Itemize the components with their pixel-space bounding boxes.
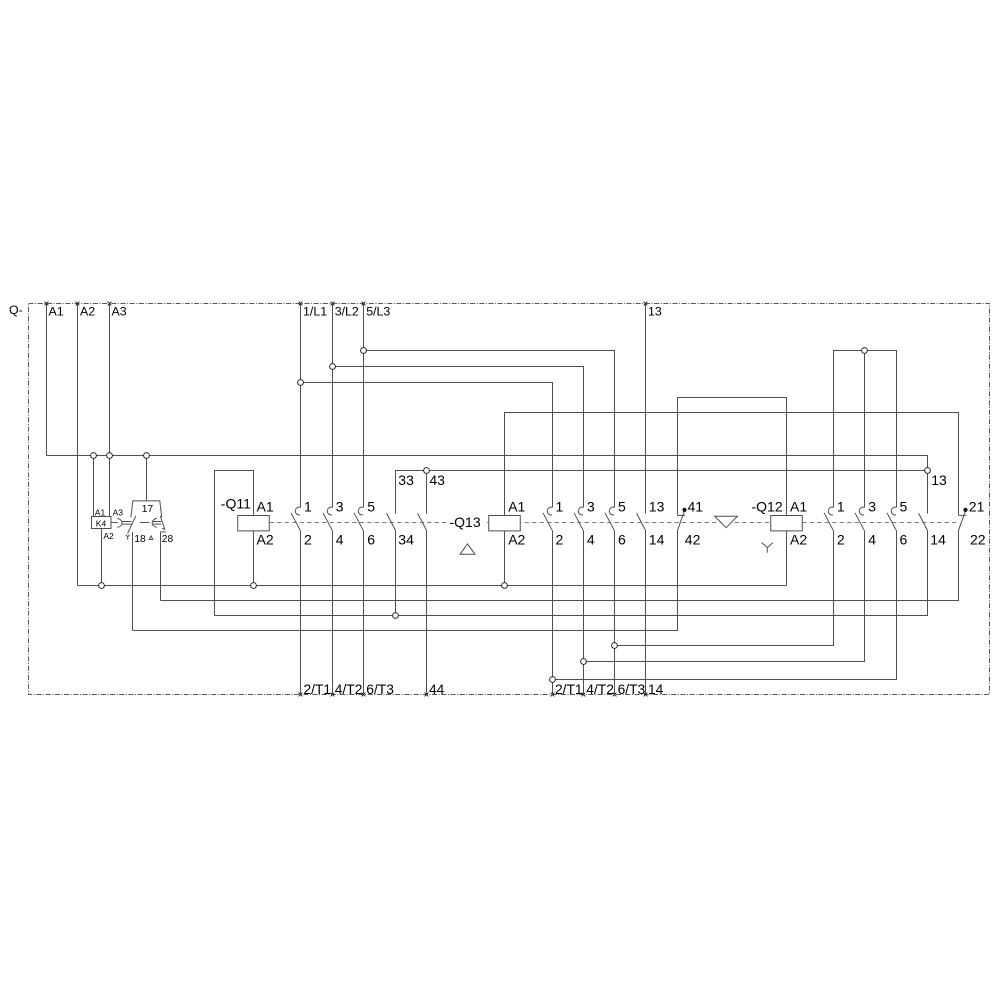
svg-text:-Q12: -Q12 <box>752 499 783 515</box>
contact Q11 5/6 <box>354 507 364 530</box>
contact Q13 41/42 NC <box>678 508 687 531</box>
svg-text:43: 43 <box>429 472 445 488</box>
svg-text:A2: A2 <box>80 304 95 318</box>
svg-text:5: 5 <box>618 499 626 515</box>
wire L3 tap to Q13 pole 5 <box>364 351 615 508</box>
wire terminal A1 vertical <box>46 304 48 456</box>
svg-text:5/L3: 5/L3 <box>366 304 390 318</box>
wire L1 tap to Q13 pole 1 <box>301 383 553 508</box>
svg-text:14: 14 <box>649 531 665 547</box>
wire Q11 contact 34 drop <box>395 530 397 615</box>
svg-text:4: 4 <box>868 531 876 547</box>
wire Q13 coil A1 to Q12 contact 21 <box>505 413 959 516</box>
terminal 1/L1 marker <box>299 302 303 306</box>
wire Q13 contact 14 to terminal 14 <box>645 530 647 694</box>
terminal 44 marker <box>425 693 429 697</box>
wire terminal A2 vertical <box>77 304 79 586</box>
wire Q12 star bridge <box>834 351 897 508</box>
svg-text:4/T2: 4/T2 <box>586 682 614 697</box>
wire Q11 coil A2 drop <box>253 531 255 586</box>
svg-text:3/L2: 3/L2 <box>335 304 359 318</box>
contact Q12 13/14 <box>919 513 928 530</box>
contact Q12 3/4 <box>855 507 865 530</box>
svg-text:6/T3: 6/T3 <box>618 682 646 697</box>
terminal 6/T3 left marker <box>362 693 366 697</box>
delta symbol at Q13 <box>460 544 475 555</box>
contact Q11 33/34 <box>387 513 396 530</box>
svg-text:28: 28 <box>162 534 174 545</box>
terminal 5/L3 marker <box>362 302 366 306</box>
contact Q12 21/22 NC <box>959 508 968 531</box>
terminal 4/T2 right marker <box>582 693 586 697</box>
svg-text:13: 13 <box>648 304 662 318</box>
node crossover 6 <box>612 643 618 649</box>
svg-text:18: 18 <box>134 534 146 545</box>
terminal 13 marker <box>644 302 648 306</box>
svg-text:Q-: Q- <box>9 303 23 317</box>
wire crossover Q13-6 to Q12-2 <box>615 530 834 645</box>
star symbol at pin 18 <box>126 535 130 540</box>
wire Q13 pole 4 to terminal 4/T2 <box>583 530 585 694</box>
svg-text:K4: K4 <box>96 519 107 529</box>
svg-text:A2: A2 <box>508 531 525 547</box>
node star bridge <box>862 348 868 354</box>
node 43 rail <box>424 468 430 474</box>
svg-text:42: 42 <box>685 531 701 547</box>
node contact 17 <box>144 453 150 459</box>
wire K4 pin 28 <box>160 532 162 601</box>
wire Q11 coil A1 bridge <box>215 471 254 616</box>
node K4 A2 <box>99 583 105 589</box>
terminal A1 marker <box>45 302 49 306</box>
contact Q12 1/2 <box>824 507 834 530</box>
svg-text:13: 13 <box>649 499 665 515</box>
svg-text:6/T3: 6/T3 <box>366 682 394 697</box>
svg-text:21: 21 <box>969 499 985 515</box>
node A3 rail <box>107 453 113 459</box>
star symbol at Q12 <box>762 543 773 553</box>
wire terminal 13 vertical <box>645 304 647 514</box>
contact Q13 1/2 <box>543 507 553 530</box>
wire terminal 1/L1 vertical <box>300 304 302 508</box>
svg-text:14: 14 <box>930 531 946 547</box>
wire Q13 pole 6 to terminal 6/T3 <box>614 530 616 694</box>
svg-text:A1: A1 <box>508 499 525 515</box>
node crossover 4 <box>581 659 587 665</box>
svg-text:2: 2 <box>304 531 312 547</box>
timer contact 17 housing <box>131 501 162 517</box>
wire terminal A3 vertical <box>109 304 111 517</box>
wire K4 contact 17 drop <box>146 456 148 501</box>
svg-text:A1: A1 <box>790 499 807 515</box>
svg-text:-Q11: -Q11 <box>221 496 251 512</box>
delta symbol at pin 28 <box>149 536 153 540</box>
terminal 14 marker <box>644 693 648 697</box>
svg-text:3: 3 <box>868 499 876 515</box>
svg-text:A1: A1 <box>257 499 274 515</box>
node L2 tap <box>330 364 336 370</box>
timer contact 18 blade <box>128 516 136 534</box>
delta symbol on linkage <box>715 516 738 528</box>
svg-text:4/T2: 4/T2 <box>335 682 363 697</box>
svg-text:2/T1: 2/T1 <box>304 682 332 697</box>
wire 28 to Q12 contact 22 <box>161 530 959 600</box>
svg-text:13: 13 <box>931 472 947 488</box>
wire A2 rail <box>78 585 787 587</box>
terminal A3 marker <box>108 302 112 306</box>
svg-text:22: 22 <box>970 531 986 547</box>
wire Q11 contact 44 to terminal 44 <box>426 530 428 694</box>
contact Q13 3/4 <box>574 507 584 530</box>
timer contact 28 foot <box>160 531 166 533</box>
wire L2 tap to Q13 pole 3 <box>333 367 584 508</box>
svg-text:41: 41 <box>688 499 704 515</box>
contact Q13 13/14 <box>637 513 646 530</box>
contact Q13 5/6 <box>605 507 615 530</box>
wire Q11 pole 6 to terminal 6/T3 <box>363 530 365 694</box>
wire K4 A1 drop <box>93 456 95 517</box>
svg-text:6: 6 <box>367 531 375 547</box>
contact Q11 43/44 <box>418 513 427 530</box>
svg-text:2/T1: 2/T1 <box>555 682 583 697</box>
svg-text:1: 1 <box>837 499 845 515</box>
contactor coil Q13 <box>489 516 521 531</box>
svg-text:3: 3 <box>336 499 344 515</box>
svg-text:33: 33 <box>398 472 414 488</box>
node Q13 A2 <box>502 583 508 589</box>
terminal 2/T1 left marker <box>299 693 303 697</box>
svg-text:44: 44 <box>429 682 445 697</box>
svg-text:A2: A2 <box>257 531 274 547</box>
wire Q11 A1 to Q12 contact 14 <box>215 530 928 615</box>
svg-text:6: 6 <box>618 531 626 547</box>
terminal 6/T3 right marker <box>613 693 617 697</box>
contact Q12 5/6 <box>887 507 897 530</box>
terminal A2 marker <box>76 302 80 306</box>
wire crossover Q13-4 to Q12-4 <box>584 530 865 661</box>
node K4 A1 <box>91 453 97 459</box>
wire 33-43 rail to Q12 contact 13 <box>396 471 928 514</box>
wire 18 to Q13 contact 42 <box>133 530 678 630</box>
svg-text:1: 1 <box>304 499 312 515</box>
contactor coil Q12 <box>771 516 803 531</box>
svg-text:4: 4 <box>336 531 344 547</box>
svg-text:1: 1 <box>556 499 564 515</box>
wire crossover Q13-2 to Q12-6 <box>553 530 897 679</box>
mechanical linkage dashed line <box>270 522 959 524</box>
svg-text:17: 17 <box>142 504 154 515</box>
contact Q11 1/2 <box>291 507 301 530</box>
svg-text:14: 14 <box>648 682 664 697</box>
svg-text:A1: A1 <box>95 507 106 517</box>
node 13 rail <box>925 468 931 474</box>
node Q11 A2 <box>251 583 257 589</box>
svg-text:A2: A2 <box>103 531 114 541</box>
svg-text:A3: A3 <box>113 507 124 517</box>
terminal 3/L2 marker <box>331 302 335 306</box>
svg-text:-Q13: -Q13 <box>450 514 481 530</box>
wire Q11 pole 4 to terminal 4/T2 <box>332 530 334 694</box>
node L3 tap <box>361 348 367 354</box>
wire A1 control rail <box>47 456 928 471</box>
wire K4 pin 18 <box>132 532 134 631</box>
timer relay K4 box <box>92 517 112 529</box>
svg-text:5: 5 <box>367 499 375 515</box>
svg-text:1/L1: 1/L1 <box>303 304 327 318</box>
svg-text:2: 2 <box>837 531 845 547</box>
node crossover 2 <box>550 677 556 683</box>
contact Q11 3/4 <box>323 507 333 530</box>
svg-text:4: 4 <box>587 531 595 547</box>
svg-text:5: 5 <box>900 499 908 515</box>
svg-text:A1: A1 <box>49 304 64 318</box>
wire Q11 pole 2 to terminal 2/T1 <box>300 530 302 694</box>
svg-text:2: 2 <box>556 531 564 547</box>
wire Q13 contact 41 to Q12 coil A1 <box>678 398 787 516</box>
svg-text:A3: A3 <box>112 304 127 318</box>
wire Q12 coil A2 drop <box>786 531 788 586</box>
wire terminal 5/L3 vertical <box>363 304 365 508</box>
wire terminal 3/L2 vertical <box>332 304 334 508</box>
wire K4 A2 drop <box>101 528 103 585</box>
svg-text:3: 3 <box>587 499 595 515</box>
label -Q13 <box>447 514 484 530</box>
wire Q13 coil A2 drop <box>504 531 506 586</box>
timer contact 28 blade <box>160 516 165 530</box>
timer K4 mechanism <box>111 518 161 527</box>
wire Q13 pole 2 to terminal 2/T1 <box>552 530 554 694</box>
node contact 34 <box>393 613 399 619</box>
svg-text:6: 6 <box>900 531 908 547</box>
svg-text:A2: A2 <box>790 531 807 547</box>
enclosure border Q- <box>29 304 990 695</box>
node L1 tap <box>298 380 304 386</box>
terminal 2/T1 right marker <box>551 693 555 697</box>
contactor coil Q11 <box>238 516 270 531</box>
terminal 4/T2 left marker <box>331 693 335 697</box>
svg-text:34: 34 <box>398 531 414 547</box>
